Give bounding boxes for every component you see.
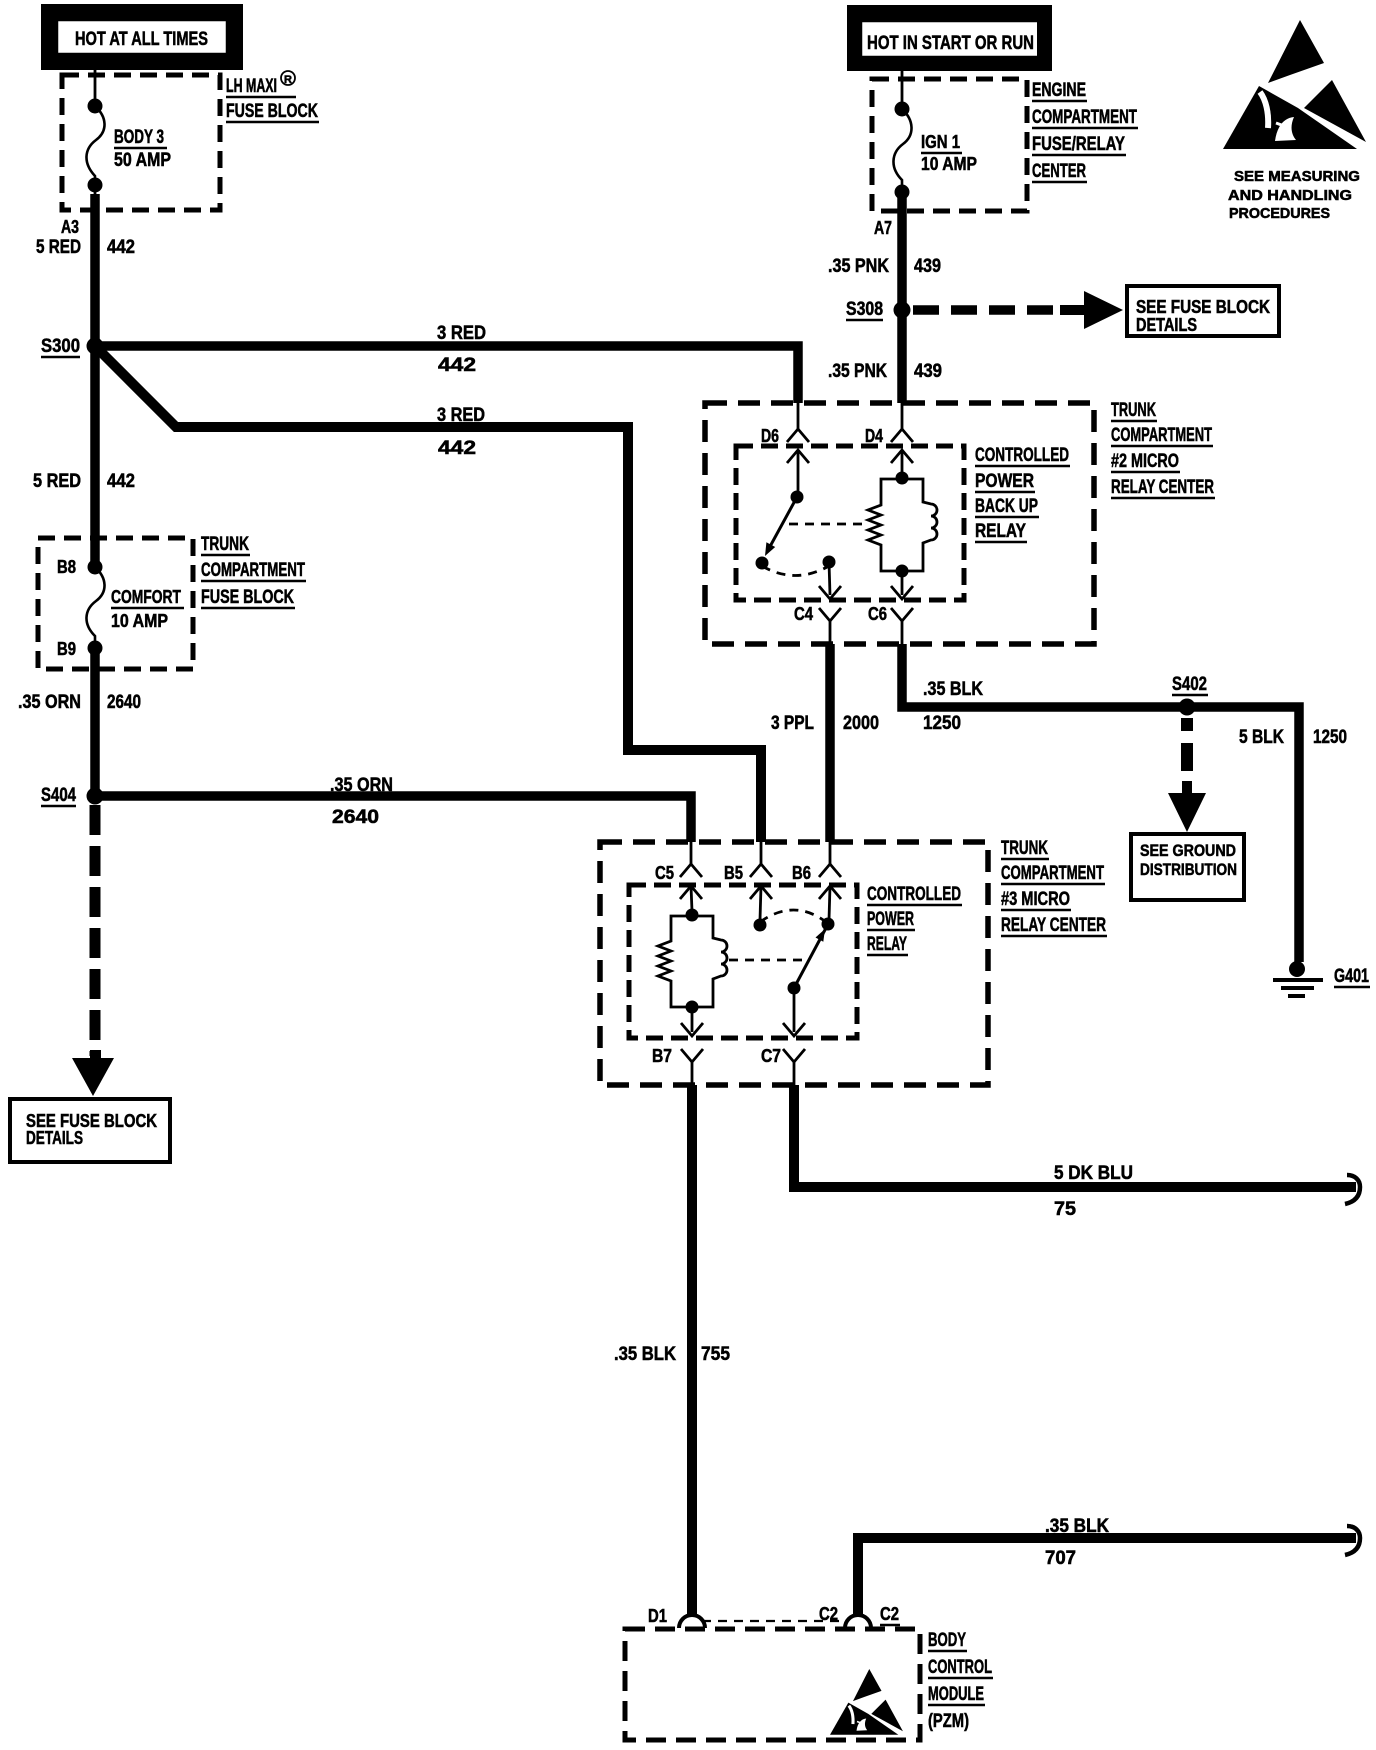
svg-text:CONTROL: CONTROL: [928, 1657, 992, 1678]
wire 3 RED 442 : S300 to B5 of #3 relay center: [99, 350, 761, 842]
svg-text:#2 MICRO: #2 MICRO: [1111, 451, 1179, 472]
connector C6 (arrow and fork): [868, 571, 913, 644]
svg-text:COMPARTMENT: COMPARTMENT: [201, 560, 305, 581]
svg-text:10 AMP: 10 AMP: [921, 154, 977, 174]
dashed wire: S308 to see fuse block details: [913, 291, 1123, 329]
svg-text:3 RED: 3 RED: [437, 323, 486, 344]
svg-text:MODULE: MODULE: [928, 1684, 984, 1705]
svg-text:BODY 3: BODY 3: [114, 127, 164, 148]
label: TRUNK COMPARTMENT FUSE BLOCK: [201, 534, 306, 608]
power feed box: HOT AT ALL TIMES: [49, 12, 236, 63]
svg-text:COMPARTMENT: COMPARTMENT: [1032, 107, 1137, 128]
svg-text:5 DK BLU: 5 DK BLU: [1054, 1163, 1133, 1184]
svg-text:HOT IN START OR RUN: HOT IN START OR RUN: [867, 33, 1034, 54]
reference box: SEE GROUND DISTRIBUTION: [1131, 834, 1244, 900]
svg-text:5 RED: 5 RED: [33, 471, 81, 492]
connector D6 (fork and arrow): [761, 403, 809, 463]
svg-text:C5: C5: [655, 863, 674, 883]
connector B6 (fork and arrow): [792, 842, 841, 899]
relay switch (back up relay): [756, 450, 867, 576]
fuse IGN 1 10 AMP: [893, 102, 977, 200]
svg-text:DISTRIBUTION: DISTRIBUTION: [1140, 860, 1237, 879]
svg-text:RELAY: RELAY: [867, 934, 907, 955]
connector C7 (arrow and fork): [761, 988, 805, 1085]
svg-text:B5: B5: [724, 863, 743, 883]
svg-text:D1: D1: [648, 1606, 667, 1626]
svg-text:B9: B9: [57, 639, 76, 659]
svg-text:2000: 2000: [843, 713, 879, 734]
svg-text:.35 BLK: .35 BLK: [923, 679, 983, 700]
svg-text:S308: S308: [846, 299, 883, 320]
svg-text:755: 755: [701, 1344, 730, 1365]
svg-text:RELAY: RELAY: [975, 521, 1026, 542]
svg-text:1250: 1250: [1313, 727, 1347, 748]
wire 3 RED 442 : S300 to D6 of #2 relay center: [100, 346, 798, 403]
reference box: SEE FUSE BLOCK DETAILS (right): [1127, 286, 1279, 336]
ESD warning symbol (inside body control module): [830, 1669, 903, 1735]
Trunk compartment fuse block (dashed box): [38, 538, 193, 669]
svg-text:442: 442: [107, 237, 135, 258]
svg-text:FUSE BLOCK: FUSE BLOCK: [201, 587, 294, 608]
svg-text:C6: C6: [868, 604, 887, 624]
svg-text:707: 707: [1045, 1548, 1076, 1569]
wire continuation hook (5 DK BLU): [1345, 1175, 1360, 1204]
svg-text:3 PPL: 3 PPL: [771, 713, 814, 734]
svg-text:5 BLK: 5 BLK: [1239, 727, 1284, 748]
svg-text:C2: C2: [880, 1604, 899, 1624]
pin C2 (half-circle pin): [819, 1604, 900, 1628]
connector C4 (arrow and fork): [794, 562, 841, 644]
svg-text:.35 ORN: .35 ORN: [330, 775, 393, 796]
controlled power back up relay (inner dashed box): [736, 446, 964, 600]
wire .35 ORN 2640 : B9 to S404: [90, 648, 100, 796]
relay coil (controlled power relay): [658, 886, 727, 1014]
svg-text:AND HANDLING: AND HANDLING: [1228, 188, 1352, 204]
svg-text:PROCEDURES: PROCEDURES: [1229, 206, 1330, 222]
svg-text:.35 PNK: .35 PNK: [828, 256, 889, 277]
svg-text:B6: B6: [792, 863, 811, 883]
node S402: [1179, 699, 1196, 716]
ESD warning symbol (top right): [1223, 20, 1366, 149]
Trunk compartment #3 micro relay center (outer dashed box): [600, 842, 988, 1085]
svg-text:CENTER: CENTER: [1032, 161, 1086, 182]
wire .35 PNK 439 : S308 to D4 of #2 relay center: [897, 310, 907, 403]
label: CONTROLLED POWER RELAY: [867, 884, 962, 955]
wire: HOT AT ALL TIMES feed into BODY 3 fuse: [94, 70, 97, 104]
wire .35 PNK 439 : A7 to S308: [897, 192, 907, 310]
connector C5 (fork and arrow): [655, 842, 702, 899]
svg-text:HOT AT ALL TIMES: HOT AT ALL TIMES: [75, 29, 208, 50]
label: CONTROLLED POWER BACK UP RELAY: [975, 445, 1070, 542]
svg-text:G401: G401: [1334, 966, 1369, 987]
svg-text:D6: D6: [761, 426, 779, 446]
svg-text:(PZM): (PZM): [928, 1711, 969, 1732]
svg-text:B7: B7: [652, 1046, 672, 1066]
svg-text:BACK UP: BACK UP: [975, 496, 1038, 517]
svg-text:RELAY CENTER: RELAY CENTER: [1111, 477, 1214, 498]
label: BODY CONTROL MODULE (PZM): [928, 1630, 993, 1732]
dashed wire: S402 down to see ground distribution: [1168, 718, 1206, 832]
svg-text:B8: B8: [57, 557, 76, 577]
svg-text:50 AMP: 50 AMP: [114, 150, 171, 171]
svg-text:TRUNK: TRUNK: [201, 534, 249, 555]
svg-text:FUSE BLOCK: FUSE BLOCK: [226, 101, 318, 122]
label: ENGINE COMPARTMENT FUSE/RELAY CENTER: [1032, 80, 1138, 182]
note: SEE MEASURING AND HANDLING PROCEDURES: [1228, 169, 1360, 222]
wire 5 BLK 1250 : S402 to G401: [1187, 707, 1299, 962]
svg-text:COMFORT: COMFORT: [111, 587, 181, 607]
svg-text:CONTROLLED: CONTROLLED: [867, 884, 961, 905]
controlled power relay (inner dashed box): [629, 885, 857, 1038]
label: TRUNK COMPARTMENT #3 MICRO RELAY CENTER: [1001, 838, 1107, 936]
svg-text:#3 MICRO: #3 MICRO: [1001, 889, 1070, 910]
svg-text:.35 ORN: .35 ORN: [18, 692, 81, 713]
svg-text:.35 PNK: .35 PNK: [828, 361, 887, 382]
svg-text:TRUNK: TRUNK: [1111, 400, 1156, 421]
wire 3 PPL 2000 : C4 to B6 of #3 relay center: [825, 644, 835, 842]
svg-text:COMPARTMENT: COMPARTMENT: [1001, 863, 1104, 884]
Engine compartment fuse/relay center (dashed box): [872, 79, 1027, 211]
svg-text:RELAY CENTER: RELAY CENTER: [1001, 915, 1106, 936]
svg-text:1250: 1250: [923, 713, 961, 734]
svg-text:POWER: POWER: [867, 909, 914, 930]
pin B8: [88, 560, 103, 575]
wire 5 RED 442 : A3 to S300: [90, 194, 100, 346]
svg-text:5 RED: 5 RED: [36, 237, 81, 258]
node S308: [894, 302, 911, 319]
wire .35 BLK 755 : B7 to D1 of body control module: [687, 1085, 697, 1616]
svg-text:D4: D4: [865, 426, 883, 446]
wire: HOT IN START OR RUN feed into IGN 1 fuse: [901, 71, 904, 107]
Body control module (dashed box): [625, 1629, 920, 1740]
relay switch (controlled power relay): [729, 886, 835, 995]
wire .35 BLK 1250 : C6 to S402: [902, 644, 1187, 707]
svg-text:LH MAXI: LH MAXI: [226, 76, 277, 97]
connector B5 (fork and arrow): [724, 842, 772, 899]
svg-text:C4: C4: [794, 604, 813, 624]
ground G401: [1273, 961, 1370, 996]
svg-text:442: 442: [107, 471, 135, 492]
svg-text:C2: C2: [819, 1604, 838, 1624]
label: TRUNK COMPARTMENT #2 MICRO RELAY CENTER: [1111, 400, 1215, 498]
svg-text:439: 439: [914, 361, 942, 382]
svg-text:A7: A7: [874, 218, 892, 238]
svg-text:TRUNK: TRUNK: [1001, 838, 1048, 859]
svg-text:DETAILS: DETAILS: [26, 1128, 83, 1148]
dashed link D1 to C2 inside module: [702, 1620, 842, 1622]
svg-text:SEE MEASURING: SEE MEASURING: [1234, 169, 1360, 185]
svg-text:10 AMP: 10 AMP: [111, 611, 168, 631]
svg-text:C7: C7: [761, 1046, 781, 1066]
wire 5 DK BLU 75 : C7 to right edge: [794, 1085, 1356, 1187]
svg-text:CONTROLLED: CONTROLLED: [975, 445, 1069, 466]
svg-text:.35 BLK: .35 BLK: [1045, 1516, 1109, 1537]
svg-text:ENGINE: ENGINE: [1032, 80, 1086, 101]
label: LH MAXI (R) FUSE BLOCK: [226, 71, 319, 122]
wire 5 RED 442 : S300 to B8: [90, 346, 100, 567]
svg-text:SEE GROUND: SEE GROUND: [1140, 841, 1236, 860]
node S300: [87, 338, 104, 355]
svg-text:2640: 2640: [107, 692, 141, 713]
svg-text:A3: A3: [61, 217, 79, 237]
connector D4 (fork and arrow): [865, 403, 913, 463]
relay coil (back up relay): resistor and winding in parallel: [868, 450, 937, 578]
svg-text:S404: S404: [41, 785, 76, 806]
svg-text:S300: S300: [41, 336, 80, 357]
svg-text:DETAILS: DETAILS: [1136, 315, 1197, 335]
wire .35 ORN 2640 : S404 to C5 of #3 relay center: [100, 796, 691, 842]
pin D1 (half-circle pin): [648, 1606, 705, 1628]
svg-text:3 RED: 3 RED: [437, 405, 485, 426]
Trunk compartment #2 micro relay center (outer dashed box): [705, 403, 1094, 644]
wire .35 BLK 707 : C2 up and right: [858, 1538, 1356, 1615]
svg-text:2640: 2640: [332, 807, 379, 828]
pin B9: [88, 641, 103, 656]
fuse COMFORT 10 AMP: [86, 567, 184, 648]
node S404: [87, 788, 104, 805]
svg-text:BODY: BODY: [928, 1630, 966, 1651]
reference box: SEE FUSE BLOCK DETAILS (bottom left): [10, 1099, 170, 1162]
wire continuation hook (.35 BLK 707): [1345, 1526, 1360, 1555]
svg-text:COMPARTMENT: COMPARTMENT: [1111, 425, 1212, 446]
svg-text:S402: S402: [1172, 674, 1207, 695]
svg-text:442: 442: [438, 355, 476, 376]
svg-text:POWER: POWER: [975, 471, 1034, 492]
svg-text:439: 439: [914, 256, 941, 277]
fuse BODY 3 50 AMP: [86, 99, 171, 193]
power feed box: HOT IN START OR RUN: [855, 13, 1045, 64]
svg-text:R: R: [284, 74, 292, 86]
svg-text:FUSE/RELAY: FUSE/RELAY: [1032, 134, 1125, 155]
svg-text:IGN 1: IGN 1: [921, 132, 960, 152]
dashed wire: S404 down to see fuse block details: [72, 805, 114, 1096]
connector B7 (arrow and fork): [652, 1007, 703, 1085]
LH Maxi fuse block (dashed box): [62, 75, 220, 210]
svg-text:75: 75: [1054, 1199, 1076, 1220]
svg-text:442: 442: [438, 438, 476, 459]
svg-text:.35 BLK: .35 BLK: [614, 1344, 676, 1365]
svg-text:SEE FUSE BLOCK: SEE FUSE BLOCK: [1136, 297, 1270, 317]
